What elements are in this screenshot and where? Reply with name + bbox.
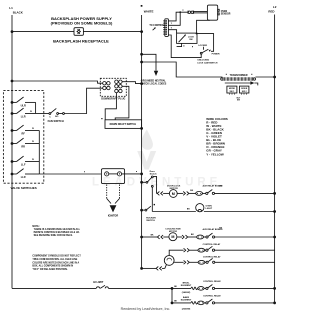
svg-text:TRANSFORMER: TRANSFORMER: [230, 74, 248, 77]
svg-text:COMPONENT SYMBOLS DO NOT REFLE: COMPONENT SYMBOLS DO NOT REFLECT: [32, 256, 81, 258]
svg-text:SW: SW: [189, 39, 192, 41]
oven light: [196, 204, 204, 212]
wire strip pin7 to outer loop: [168, 35, 201, 58]
svg-text:"OFF" OR RELAXED POSITION.: "OFF" OR RELAXED POSITION.: [32, 268, 68, 271]
downdraft plug pins right: [115, 80, 122, 93]
svg-text:CHECK LOCAL CODES: CHECK LOCAL CODES: [141, 82, 167, 85]
note block: [32, 226, 81, 271]
svg-text:ULR: ULR: [21, 105, 26, 108]
svg-text:Rendered by LeadVenture, Inc.: Rendered by LeadVenture, Inc.: [121, 307, 171, 311]
wire pair2-3 bracket: [38, 131, 40, 175]
svg-text:(2500W): (2500W): [182, 309, 191, 311]
wire valve output to spark module: [39, 173, 101, 175]
transformer secondary blocks: [227, 86, 237, 93]
svg-text:ELEMENT: ELEMENT: [181, 285, 192, 287]
wire sensor pair: [194, 11, 208, 13]
svg-text:L2: L2: [273, 5, 277, 9]
svg-text:RF: RF: [22, 133, 26, 136]
wire neutral to transformer: [142, 62, 223, 77]
watermark logo flame: [141, 130, 153, 150]
wire L1 bottom run: [12, 287, 96, 289]
svg-text:MOTOR: MOTOR: [169, 231, 178, 233]
svg-text:THERE IS A RESISTANCE HEATER I: THERE IS A RESISTANCE HEATER IN ALL: [34, 228, 81, 231]
svg-text:(PROVIDED ON SOME MODELS): (PROVIDED ON SOME MODELS): [51, 20, 113, 25]
valve switch RF: [12, 125, 39, 136]
sensor connector: [187, 11, 189, 14]
conv fan neutral row: [142, 267, 157, 269]
svg-text:CONTROL RELAY: CONTROL RELAY: [203, 243, 221, 246]
junction dots element feed: [171, 11, 198, 304]
svg-text:W: W: [30, 111, 32, 113]
wire door switch NC drop: [151, 187, 153, 211]
svg-text:(3400W): (3400W): [182, 291, 191, 294]
connector strip pin ticks: [163, 21, 165, 34]
node N tick: [141, 5, 143, 7]
wire hi limit to broil row: [108, 287, 191, 289]
svg-text:M: M: [172, 192, 175, 196]
svg-text:ELEMENT: ELEMENT: [181, 300, 192, 302]
wire L1 to plug: [12, 81, 103, 83]
wire door switch to motor row: [153, 176, 156, 193]
wire plug to downdraft switch right: [115, 86, 129, 120]
svg-text:LIGHT: LIGHT: [206, 208, 213, 210]
svg-text:POWER: POWER: [212, 54, 220, 56]
svg-text:SEE REVERSE SIDE FOR DETAILS.: SEE REVERSE SIDE FOR DETAILS.: [34, 234, 74, 237]
svg-text:BOX. ALL COMPONENTS SHOWN IN: BOX. ALL COMPONENTS SHOWN IN: [32, 265, 73, 268]
svg-text:RR: RR: [21, 146, 25, 149]
door lock motor: [169, 190, 177, 198]
svg-text:SW: SW: [237, 100, 240, 102]
svg-text:RED: RED: [268, 10, 274, 14]
wire strip pin3 riser: [168, 12, 180, 25]
lock box stub: [177, 43, 182, 46]
wire plug to neutral: [122, 82, 142, 84]
grounded neutral arrow: [142, 54, 156, 71]
wire sensor to strip pin1: [168, 12, 188, 21]
conv fan mid row: [174, 261, 184, 263]
junction dots L1 bus: [11, 30, 14, 175]
wire plug to downdraft switch left: [105, 93, 116, 120]
svg-text:W: W: [32, 141, 34, 143]
valve switch LLR lower: [12, 169, 39, 180]
wire element feed drop: [171, 288, 173, 303]
wire L2 bus: [274, 15, 276, 303]
igniter: [110, 205, 117, 212]
connector oval C: [197, 235, 204, 239]
wire sensor second lead: [197, 20, 210, 33]
svg-text:BACKSPLASH RECEPTACLE: BACKSPLASH RECEPTACLE: [53, 38, 109, 43]
svg-text:W: W: [32, 159, 34, 161]
junction dots neutral bus: [140, 30, 143, 270]
downdraft plug dashed box: [100, 78, 126, 96]
svg-text:TO CONTROL: TO CONTROL: [149, 25, 165, 27]
svg-text:Y - YELLOW: Y - YELLOW: [206, 152, 224, 156]
svg-text:Switch: Switch: [150, 172, 158, 175]
svg-text:GROUNDED NEUTRAL: GROUNDED NEUTRAL: [141, 79, 167, 82]
svg-text:BLACK: BLACK: [13, 11, 24, 15]
wire strip pin5 to lock box: [168, 30, 176, 33]
cooling fan motor: [169, 233, 177, 241]
svg-text:W: W: [32, 128, 34, 130]
svg-text:L1: L1: [9, 6, 13, 10]
svg-text:LLF: LLF: [21, 164, 26, 167]
spark module box: [101, 169, 124, 184]
svg-text:INFINITE CONTROLS BETWEEN H1 &: INFINITE CONTROLS BETWEEN H1 & H2.: [34, 232, 80, 234]
oven sensor: [207, 5, 217, 20]
svg-text:NOTE:: NOTE:: [32, 226, 39, 228]
wire oven light row: [152, 211, 196, 213]
svg-text:LLR: LLR: [21, 176, 26, 179]
wire colors legend: [206, 117, 228, 157]
fan switch: [48, 108, 65, 123]
valve switch RR: [12, 138, 39, 149]
wire backsplash line left: [12, 31, 74, 33]
svg-text:SWITCH: SWITCH: [146, 220, 155, 222]
wire pair1 bracket: [35, 102, 37, 113]
svg-text:CONTROL RELAY: CONTROL RELAY: [203, 294, 221, 297]
svg-text:HI LIMIT: HI LIMIT: [93, 280, 104, 284]
valve switch LLF: [12, 156, 39, 167]
wire motor row to L2: [215, 192, 275, 194]
svg-text:SENSOR: SENSOR: [221, 14, 231, 16]
valve switches dashed box: [3, 91, 43, 184]
svg-text:CONTROL RELAY: CONTROL RELAY: [203, 280, 221, 283]
rocker switch: [143, 209, 146, 211]
wire backsplash line right: [83, 31, 141, 33]
hi limit switch: [93, 280, 108, 288]
svg-text:COLORS ARE NOTED ON EACH LINE: COLORS ARE NOTED ON EACH LINE IN A: [32, 261, 79, 264]
svg-text:M: M: [171, 235, 174, 239]
svg-text:DOWNDRAFT PLUG: DOWNDRAFT PLUG: [101, 98, 125, 101]
aux relay C: [206, 236, 208, 238]
watermark logo V: [137, 151, 156, 170]
transformer secondary arrow: [225, 82, 251, 84]
junction dots L2 bus: [273, 76, 276, 305]
wire L1 bus: [11, 15, 13, 288]
convection fan motor: [164, 256, 174, 266]
door lock motor row: [156, 192, 159, 194]
wire igniter leads dashed: [106, 185, 108, 199]
control board connector strip: [165, 19, 169, 37]
valve switch LLR: [12, 108, 36, 119]
svg-text:IGNITOR: IGNITOR: [108, 214, 119, 217]
svg-text:TRUE CONFIGURATION. ALL FEED L: TRUE CONFIGURATION. ALL FEED LINE: [32, 258, 77, 261]
svg-text:CONTROL RELAY: CONTROL RELAY: [203, 255, 221, 258]
cooling fan row: [142, 236, 158, 238]
lock motor box: [177, 33, 197, 43]
conv fan top row: [169, 250, 183, 255]
svg-text:WHITE: WHITE: [144, 10, 154, 14]
downdraft plug pins left: [103, 82, 110, 90]
svg-text:LOCK CAM SWITCH: LOCK CAM SWITCH: [197, 61, 217, 64]
svg-text:LOCKED: LOCKED: [198, 45, 207, 47]
wire fan switch to plug: [64, 88, 102, 113]
connector oval A: [196, 192, 203, 196]
wire WHITE neutral bus: [141, 15, 143, 268]
svg-text:DOWN DRAFT SWITCH: DOWN DRAFT SWITCH: [110, 123, 137, 126]
wire LLR row to fan switch: [36, 113, 49, 115]
transformer primary coil: [223, 77, 254, 80]
svg-text:FAN SWITCH: FAN SWITCH: [48, 119, 64, 123]
wire lock box to cam contact: [197, 34, 214, 52]
svg-text:NO: NO: [55, 116, 59, 118]
svg-text:MOTOR: MOTOR: [170, 188, 179, 190]
lock cam switch: [200, 52, 202, 54]
svg-text:LLR: LLR: [21, 116, 26, 119]
svg-text:VALVE SWITCHES: VALVE SWITCHES: [10, 186, 36, 190]
wire spark module to neutral: [122, 173, 142, 175]
downdraft switch box: [105, 120, 142, 129]
aux relay A: [206, 192, 208, 194]
backsplash receptacle: [74, 28, 83, 36]
wire transformer to L2: [256, 76, 275, 78]
valve switch ULR: [12, 97, 36, 108]
